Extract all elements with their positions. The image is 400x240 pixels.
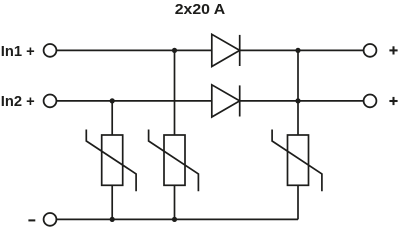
terminal In1: [44, 44, 57, 57]
wire In2 line left segment: [56, 100, 211, 102]
terminal minus: [44, 213, 57, 226]
wire varistor R1 bottom lead: [111, 185, 113, 219]
wire In1 top line left segment: [56, 49, 211, 51]
svg-text:In1 +: In1 +: [1, 44, 35, 60]
varistor R3: [272, 130, 322, 192]
label plus Out2: [389, 97, 397, 105]
varistor R1: [86, 130, 136, 192]
wire In2 line right segment: [240, 100, 364, 102]
svg-text:In2 +: In2 +: [1, 94, 35, 110]
diode D1: [212, 34, 240, 66]
wire vertical right joining diode cathodes to varistor R3: [297, 50, 299, 135]
junction bottom bus at R2: [172, 217, 177, 222]
svg-text:2x20 A: 2x20 A: [175, 2, 226, 18]
wire vertical from node A to varistor R2: [174, 50, 176, 135]
wire vertical from node B to varistor R1: [111, 101, 113, 135]
terminal Out2: [364, 95, 377, 108]
varistor R2: [149, 130, 199, 192]
terminal In2: [44, 95, 57, 108]
label minus: [28, 219, 35, 221]
terminal Out1: [364, 44, 377, 57]
label plus Out1: [389, 46, 397, 54]
junction on In2 line at right vertical: [295, 98, 300, 103]
junction node B on In2 line: [110, 98, 115, 103]
junction on In1 line at right vertical: [295, 48, 300, 53]
junction bottom bus at R1: [110, 217, 115, 222]
wire bottom minus bus: [56, 218, 298, 220]
junction node A on In1 line: [172, 48, 177, 53]
diode D2: [212, 85, 240, 117]
wire In1 top line right segment: [240, 49, 364, 51]
wire varistor R3 bottom lead to bus corner: [297, 185, 299, 219]
wire varistor R2 bottom lead: [174, 185, 176, 219]
